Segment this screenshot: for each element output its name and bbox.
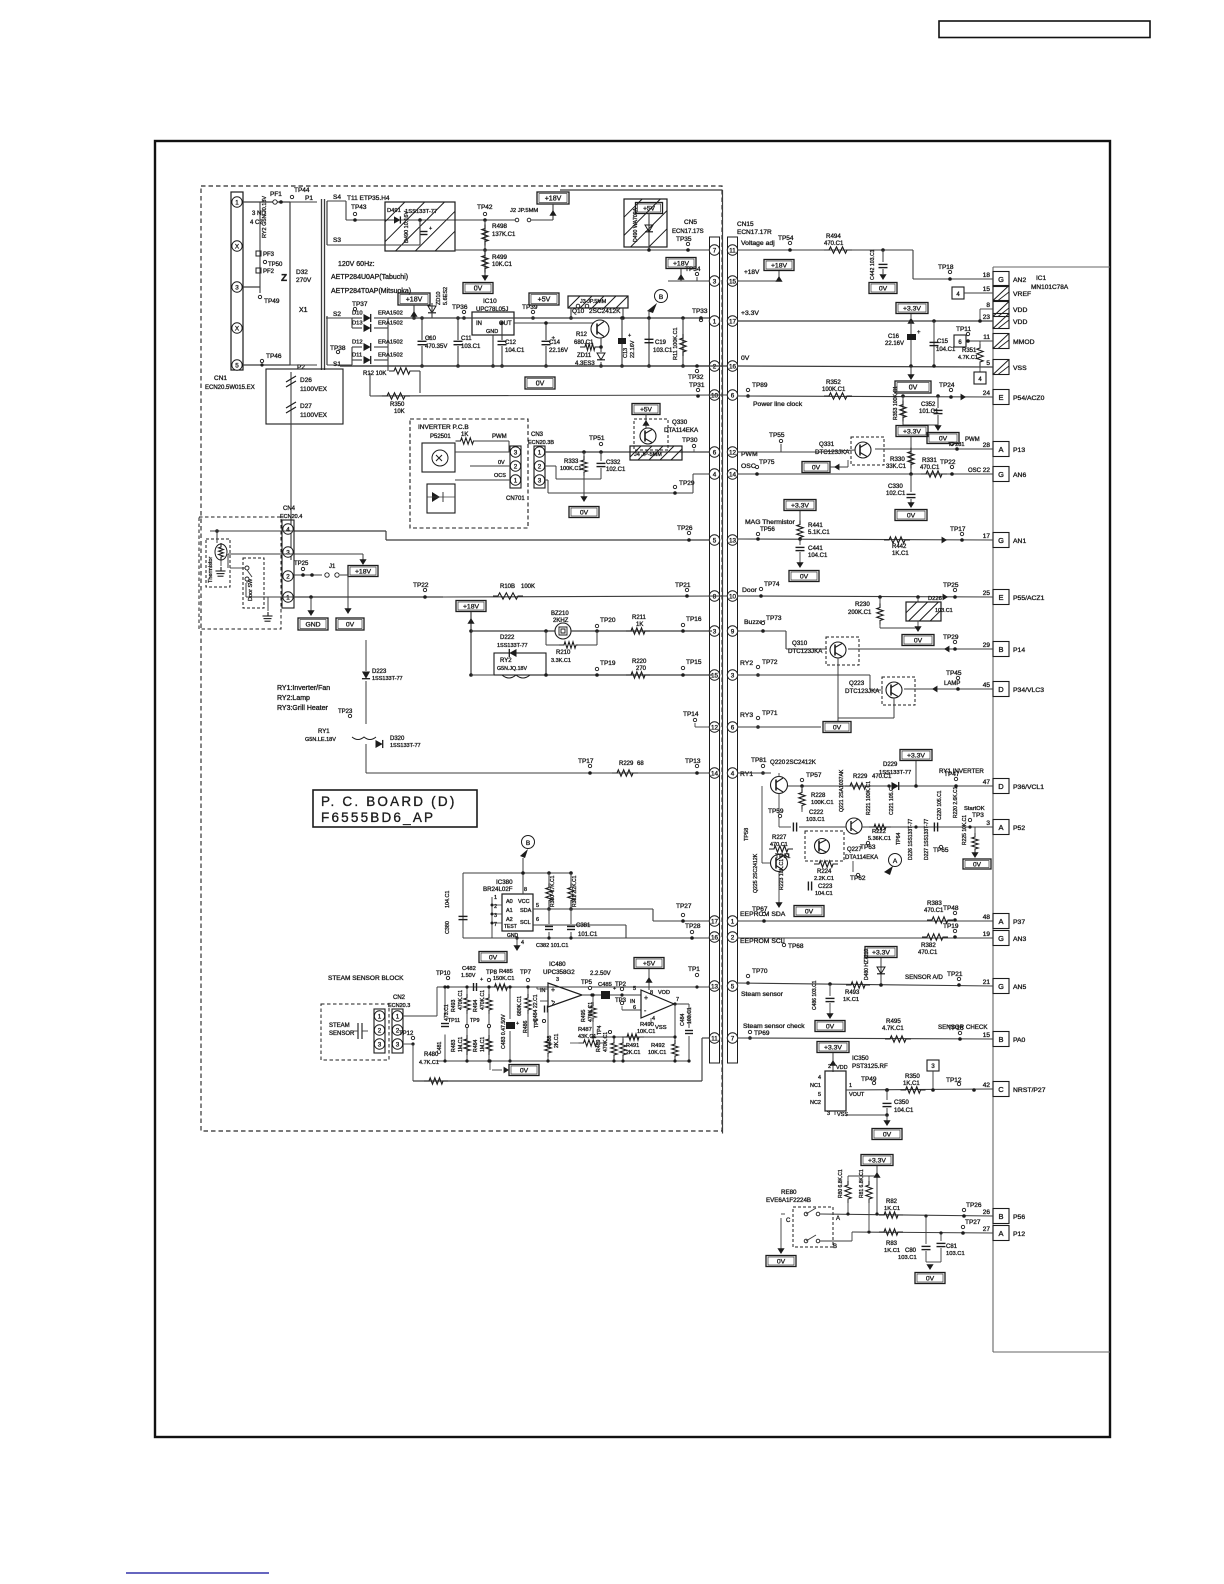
svg-text:14: 14 [711,770,719,777]
svg-text:10K.C1: 10K.C1 [492,262,513,268]
svg-text:1: 1 [396,1013,400,1020]
svg-text:17: 17 [711,918,719,925]
svg-text:1SS133T-77: 1SS133T-77 [879,770,911,776]
svg-text:2: 2 [286,573,290,580]
svg-text:VCC: VCC [518,899,530,905]
svg-text:ECN20.4: ECN20.4 [280,514,302,520]
svg-text:3: 3 [731,672,735,679]
svg-text:TP72: TP72 [762,659,778,666]
svg-text:AN2: AN2 [1013,277,1026,284]
svg-text:UPC78L05J: UPC78L05J [476,307,508,313]
svg-text:TP49: TP49 [861,1076,877,1083]
svg-text:TP13: TP13 [685,758,701,765]
svg-text:R380 4.7K.C1: R380 4.7K.C1 [550,875,556,907]
svg-text:Q10: Q10 [572,308,585,315]
svg-text:ECN20.3: ECN20.3 [388,1003,410,1009]
svg-text:+: + [917,330,921,336]
svg-text:INVERTER P.C.B: INVERTER P.C.B [418,424,469,431]
svg-text:D490 10.16V: D490 10.16V [404,211,410,243]
svg-text:C486 103.C1: C486 103.C1 [812,980,818,1010]
svg-text:C482: C482 [462,966,476,972]
svg-text:P56: P56 [1013,1214,1025,1221]
svg-text:TP32: TP32 [688,374,704,381]
svg-text:CN4: CN4 [283,506,296,512]
svg-text:TP15: TP15 [686,659,702,666]
svg-text:NRST/P27: NRST/P27 [1013,1087,1046,1094]
svg-text:R330: R330 [890,456,905,463]
svg-text:680.C1: 680.C1 [574,340,594,346]
svg-text:R83: R83 [886,1241,898,1247]
svg-text:TP281: TP281 [948,442,964,448]
svg-text:Q220: Q220 [770,759,786,766]
svg-text:R331: R331 [922,457,937,464]
svg-text:104.C1: 104.C1 [505,348,525,354]
svg-text:TP12: TP12 [399,1031,414,1037]
svg-text:R382: R382 [921,942,936,949]
svg-text:C13: C13 [623,348,629,358]
svg-text:10: 10 [711,392,719,399]
svg-text:15: 15 [729,278,737,285]
svg-text:7: 7 [731,1035,735,1042]
svg-text:C: C [998,1085,1004,1094]
svg-text:ECN17.17S: ECN17.17S [672,229,704,235]
svg-text:TP35: TP35 [676,236,692,243]
svg-text:R442: R442 [892,544,907,550]
svg-text:C441: C441 [808,545,823,552]
svg-text:0V: 0V [907,513,916,520]
svg-text:Door: Door [742,587,757,594]
svg-text:TP45: TP45 [946,670,962,677]
svg-text:+3.3V: +3.3V [791,503,809,510]
svg-text:P52: P52 [1013,825,1025,832]
svg-text:TP20: TP20 [600,617,616,624]
svg-text:0V: 0V [812,465,821,472]
svg-text:R498: R498 [492,223,508,230]
svg-text:P54/ACZ0: P54/ACZ0 [1013,395,1045,402]
svg-text:G: G [998,536,1004,545]
svg-text:TP67: TP67 [752,906,768,913]
svg-text:TP63: TP63 [860,844,876,851]
svg-text:Q331: Q331 [819,441,835,448]
svg-text:A: A [998,445,1003,454]
svg-text:E: E [998,593,1003,602]
svg-text:R229: R229 [853,774,868,780]
svg-text:1K.C1: 1K.C1 [884,1248,900,1254]
svg-text:PF2: PF2 [263,269,275,275]
svg-text:D226 1SS133T-77: D226 1SS133T-77 [908,819,914,860]
svg-text:TP5: TP5 [581,980,593,986]
svg-text:R351: R351 [962,348,977,354]
svg-text:SDA: SDA [520,908,532,914]
svg-text:1: 1 [538,449,542,456]
svg-text:R224: R224 [817,869,832,875]
svg-text:NC1: NC1 [810,1083,821,1089]
svg-text:TP74: TP74 [764,581,780,588]
svg-text:R228: R228 [811,793,826,799]
svg-text:AETP284T0AP(Mitsuoka): AETP284T0AP(Mitsuoka) [331,288,411,295]
svg-text:C381: C381 [576,923,591,929]
svg-text:+18V: +18V [406,297,423,304]
svg-text:R487: R487 [578,1027,592,1033]
svg-text:2: 2 [828,1064,831,1070]
svg-text:1: 1 [378,1013,382,1020]
svg-text:TP29: TP29 [943,634,959,641]
svg-text:6: 6 [731,724,735,731]
svg-text:0V: 0V [520,1068,529,1075]
svg-text:103.C1: 103.C1 [898,1255,917,1261]
svg-text:D11: D11 [352,353,362,359]
svg-text:D32: D32 [296,269,308,276]
svg-text:TP37: TP37 [352,301,368,308]
svg-text:BZ210: BZ210 [551,611,569,617]
svg-text:A: A [998,917,1003,926]
svg-text:0V: 0V [973,862,982,869]
svg-text:CN15: CN15 [737,221,754,228]
svg-text:Q223: Q223 [849,680,865,687]
svg-text:TP59: TP59 [768,808,784,815]
svg-text:TP70: TP70 [752,968,768,975]
svg-text:R221 100K.C1: R221 100K.C1 [866,781,872,815]
svg-text:PWM: PWM [492,434,507,440]
svg-text:R211: R211 [632,615,647,621]
svg-text:TP69: TP69 [754,1030,770,1037]
svg-text:C221 105.C1: C221 105.C1 [889,784,895,815]
svg-text:+3.3V: +3.3V [907,753,925,760]
svg-text:3: 3 [986,820,990,827]
svg-text:19: 19 [983,931,991,938]
svg-text:C223: C223 [818,884,833,890]
svg-text:G: G [998,934,1004,943]
svg-text:5.36K.C1: 5.36K.C1 [868,836,891,842]
svg-text:RY3:Grill Heater: RY3:Grill Heater [277,705,329,712]
svg-text:S3: S3 [333,237,341,244]
svg-text:+: + [628,333,631,339]
svg-text:100K.C1: 100K.C1 [811,800,834,806]
svg-text:R491: R491 [626,1043,639,1049]
svg-text:10K.C1: 10K.C1 [637,1029,655,1035]
svg-text:S4: S4 [333,194,341,201]
svg-text:TP34: TP34 [685,266,701,273]
svg-text:1K.C1: 1K.C1 [903,1081,920,1087]
svg-text:470K.C1: 470K.C1 [458,990,464,1010]
svg-text:R220 2.6K.C1: R220 2.6K.C1 [953,786,959,818]
svg-text:TP28: TP28 [685,923,701,930]
svg-text:TP21: TP21 [947,971,963,978]
svg-text:Steam sensor: Steam sensor [741,991,784,998]
svg-text:22.16V: 22.16V [549,348,568,354]
svg-text:VSS: VSS [1013,365,1027,372]
svg-text:D10: D10 [352,311,363,317]
svg-text:8: 8 [713,593,717,600]
svg-text:0V: 0V [498,460,505,466]
svg-text:+18V: +18V [744,269,760,276]
svg-text:IC480: IC480 [549,961,566,968]
svg-text:C19: C19 [655,340,667,346]
svg-text:D222: D222 [500,635,515,641]
svg-text:R333: R333 [564,459,579,465]
svg-text:VSS: VSS [655,1025,667,1031]
svg-text:G5N.LE.18V: G5N.LE.18V [305,737,336,743]
svg-text:RY2 G5N.J0.18V: RY2 G5N.J0.18V [262,196,268,238]
svg-text:TP18: TP18 [938,264,954,271]
svg-text:R82: R82 [886,1199,898,1205]
svg-text:IN: IN [476,321,482,327]
svg-text:+18V: +18V [463,604,480,611]
svg-text:1: 1 [849,1083,852,1089]
svg-text:270: 270 [636,666,647,672]
svg-text:+5V: +5V [538,297,551,304]
svg-text:470.C1: 470.C1 [770,842,788,848]
svg-text:TP3: TP3 [615,998,627,1004]
svg-text:5: 5 [818,1092,821,1098]
svg-text:+3.3V: +3.3V [824,1045,842,1052]
svg-text:16: 16 [711,934,719,941]
svg-text:R488: R488 [547,1035,553,1048]
svg-text:29: 29 [983,642,991,649]
svg-text:AETP284U0AP(Tabuchi): AETP284U0AP(Tabuchi) [331,274,408,281]
svg-text:3: 3 [538,477,542,484]
svg-text:4.7K.C1: 4.7K.C1 [419,1060,439,1066]
svg-text:R223 10K.C1: R223 10K.C1 [779,859,785,890]
svg-text:BR24L02F: BR24L02F [483,886,513,893]
svg-text:C10: C10 [425,336,437,342]
svg-text:48: 48 [983,914,991,921]
svg-text:T11 ETP35.H4: T11 ETP35.H4 [347,195,390,202]
svg-text:TP27: TP27 [965,1219,981,1226]
svg-text:X1: X1 [299,307,308,314]
svg-text:D12: D12 [352,340,363,346]
svg-text:R489: R489 [596,1039,602,1052]
svg-text:2.2.50V: 2.2.50V [590,971,611,977]
svg-text:CN2: CN2 [393,995,406,1001]
svg-text:ZD10: ZD10 [436,292,442,305]
svg-text:A: A [836,1216,840,1222]
svg-text:R483: R483 [451,1039,457,1052]
svg-text:R492: R492 [651,1043,665,1049]
svg-text:33K.C1: 33K.C1 [886,464,907,470]
svg-text:8: 8 [650,990,653,996]
svg-text:101.C1: 101.C1 [919,409,939,415]
svg-text:TP81: TP81 [751,757,767,764]
svg-text:100K.C1: 100K.C1 [822,387,846,393]
svg-text:C352: C352 [921,402,936,408]
svg-text:101.C1: 101.C1 [578,932,598,938]
svg-text:AN1: AN1 [1013,538,1026,545]
svg-text:R12 10K: R12 10K [363,371,386,377]
svg-text:P14: P14 [1013,647,1025,654]
svg-text:TP16: TP16 [686,616,702,623]
svg-text:TP65: TP65 [933,847,949,854]
svg-text:TP25: TP25 [943,582,959,589]
svg-text:R352: R352 [826,379,841,386]
svg-text:IC380: IC380 [496,879,513,886]
svg-text:D26: D26 [300,377,312,384]
svg-text:F6555BD6_AP: F6555BD6_AP [321,810,435,825]
svg-text:UPC358G2: UPC358G2 [543,969,575,976]
svg-text:MAG Thermistor: MAG Thermistor [745,519,795,526]
svg-text:0V: 0V [489,955,498,962]
svg-text:0V: 0V [536,381,545,388]
svg-text:2K.C1: 2K.C1 [554,1033,560,1048]
svg-text:B: B [833,1244,837,1250]
svg-text:+5V: +5V [640,407,652,414]
svg-text:2.2K.C1: 2.2K.C1 [814,876,834,882]
svg-text:6: 6 [713,449,717,456]
svg-text:470.35V: 470.35V [425,344,447,350]
svg-text:R210: R210 [556,650,571,656]
svg-text:PWM: PWM [965,437,980,443]
svg-text:D223: D223 [372,669,387,675]
svg-text:0V: 0V [474,286,483,293]
svg-text:TEST: TEST [504,924,517,930]
svg-text:RY2: RY2 [740,660,753,667]
svg-text:RY2:Lamp: RY2:Lamp [277,695,310,702]
svg-text:TP50: TP50 [268,262,283,268]
svg-text:R12: R12 [576,332,588,338]
svg-text:D227 1SS133T-77: D227 1SS133T-77 [924,819,930,860]
svg-text:+18V: +18V [355,569,372,576]
svg-text:22: 22 [983,467,991,474]
svg-text:A: A [998,823,1003,832]
svg-text:IC350: IC350 [852,1055,869,1062]
svg-text:ZD11: ZD11 [577,353,592,359]
svg-text:27: 27 [983,1226,991,1233]
svg-text:D491: D491 [387,208,401,214]
svg-text:6: 6 [731,392,735,399]
svg-text:ERA1502: ERA1502 [378,321,403,327]
svg-text:R80 6.8K.C1: R80 6.8K.C1 [838,1169,844,1198]
svg-text:2: 2 [731,934,735,941]
svg-text:TP17: TP17 [578,758,594,765]
svg-text:7: 7 [676,997,679,1003]
svg-text:470.C1: 470.C1 [918,950,938,956]
svg-text:ECN20.5W015.EX: ECN20.5W015.EX [205,385,255,391]
svg-text:3: 3 [396,1041,400,1048]
svg-text:CN3: CN3 [531,432,544,438]
svg-text:P37: P37 [1013,919,1025,926]
svg-text:24: 24 [983,390,991,397]
svg-text:D27: D27 [300,403,312,410]
svg-text:1: 1 [494,895,497,901]
svg-text:Power line clock: Power line clock [753,401,803,408]
svg-text:1.50V: 1.50V [461,973,476,979]
svg-text:CN5: CN5 [684,219,697,226]
svg-text:4.7K.C1: 4.7K.C1 [958,355,978,361]
svg-text:PA0: PA0 [1013,1037,1026,1044]
svg-text:1: 1 [235,199,239,206]
svg-text:P52501: P52501 [430,434,451,440]
svg-text:P13: P13 [1013,447,1025,454]
svg-text:150K.C1: 150K.C1 [493,976,514,982]
svg-text:0V: 0V [926,1276,935,1283]
svg-text:TP23: TP23 [338,709,353,715]
svg-text:103.C1: 103.C1 [653,348,673,354]
svg-text:TP75: TP75 [759,459,775,466]
svg-text:D320: D320 [390,736,405,742]
svg-text:ECN17.17R: ECN17.17R [737,229,772,236]
svg-text:CN1: CN1 [214,375,227,382]
svg-text:+3.3V: +3.3V [903,306,921,313]
svg-text:0V: 0V [914,638,923,645]
svg-text:EEPROM SCL: EEPROM SCL [740,938,785,945]
svg-text:4.7K.C1: 4.7K.C1 [882,1026,904,1032]
svg-text:R220: R220 [632,659,647,665]
svg-text:RY1: RY1 [318,729,330,735]
svg-text:470K.C1: 470K.C1 [588,1002,594,1022]
svg-text:DTC123JKA: DTC123JKA [788,648,823,655]
svg-text:PST3125.RF: PST3125.RF [852,1063,888,1070]
svg-text:D490 WA709A: D490 WA709A [633,207,639,242]
svg-text:TP2: TP2 [615,982,627,988]
svg-text:OSC: OSC [968,468,982,474]
svg-text:D: D [998,782,1004,791]
svg-text:TP73: TP73 [766,615,782,622]
svg-text:A: A [893,858,898,865]
svg-text:Steam sensor check: Steam sensor check [743,1023,805,1030]
svg-text:1: 1 [731,918,735,925]
svg-text:18: 18 [983,272,991,279]
svg-text:TP11: TP11 [956,326,971,333]
svg-text:C330: C330 [888,483,903,490]
svg-text:TP17: TP17 [950,526,966,533]
svg-text:DTC123JKA: DTC123JKA [815,449,850,456]
svg-text:RE80: RE80 [781,1189,797,1196]
svg-text:TP55: TP55 [769,432,785,439]
svg-text:C380: C380 [445,921,451,934]
svg-text:6: 6 [536,917,539,923]
svg-text:R383: R383 [927,900,942,907]
svg-text:103.C1: 103.C1 [935,608,953,614]
svg-text:TP31: TP31 [689,382,705,389]
svg-text:100K: 100K [521,584,535,590]
svg-text:Q310: Q310 [792,640,808,647]
svg-text:AN3: AN3 [1013,936,1026,943]
svg-text:TP54: TP54 [778,235,794,242]
svg-text:R495: R495 [581,1009,587,1022]
svg-text:+5V: +5V [643,206,655,213]
svg-text:DTA114EKA: DTA114EKA [664,427,699,434]
svg-text:0V: 0V [909,385,918,392]
svg-text:SENSOR A/D: SENSOR A/D [905,974,943,981]
svg-text:ERA1502: ERA1502 [378,311,403,317]
svg-text:0V: 0V [580,510,589,517]
svg-text:TP64: TP64 [896,832,902,845]
svg-text:4: 4 [521,940,524,946]
svg-text:IC1: IC1 [1036,275,1047,282]
svg-text:0V: 0V [826,1024,835,1031]
svg-text:J4 JP-5MM: J4 JP-5MM [634,452,662,458]
svg-text:RY1:Inverter/Fan: RY1:Inverter/Fan [277,685,330,692]
svg-text:TP10: TP10 [436,971,451,977]
svg-text:TP11: TP11 [448,1018,460,1024]
svg-text:C16: C16 [888,334,900,340]
svg-text:1: 1 [713,318,717,325]
svg-text:13: 13 [711,983,719,990]
svg-text:1: 1 [286,594,290,601]
svg-text:2K.C1: 2K.C1 [626,1050,641,1056]
svg-text:2: 2 [713,363,717,370]
svg-text:2: 2 [514,463,518,470]
svg-text:R225 10K.C1: R225 10K.C1 [962,815,968,845]
svg-text:TP36: TP36 [452,304,468,311]
svg-text:15: 15 [983,1032,991,1039]
svg-text:13: 13 [729,537,737,544]
svg-text:C220 105.C1: C220 105.C1 [937,790,943,820]
svg-text:0V: 0V [833,725,842,732]
svg-text:R495: R495 [886,1018,901,1025]
svg-text:+3.3V: +3.3V [868,1158,886,1165]
svg-text:LAMP: LAMP [944,681,960,687]
